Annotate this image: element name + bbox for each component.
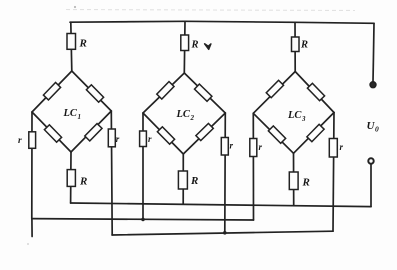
wire bridge 2 right r drop	[224, 113, 227, 233]
wire left stub below rail B	[31, 219, 33, 237]
resistor bridge 2 lower-right arm	[196, 123, 213, 140]
wire R top feed bridge 2	[183, 21, 186, 73]
arrow mark near R of bridge 2	[205, 44, 211, 50]
svg-text:1: 1	[78, 113, 82, 121]
wire bridge 1 arm top-right	[72, 71, 112, 111]
resistor bridge 2 upper-left arm	[157, 82, 174, 99]
resistor r right bridge 2	[221, 138, 228, 156]
terminal lower output	[368, 158, 373, 163]
resistor R bottom bridge 2	[178, 171, 187, 189]
resistor R top bridge 3	[292, 37, 300, 52]
resistor R bottom bridge 1	[67, 170, 75, 187]
terminal upper output	[370, 82, 376, 88]
svg-text:r: r	[259, 142, 263, 152]
speck bottom-left	[27, 243, 29, 245]
svg-text:LC: LC	[287, 110, 302, 121]
svg-text:LC: LC	[176, 109, 191, 120]
wire bottom rail A (bottom R bus)	[71, 203, 371, 207]
resistor bridge 1 upper-right arm	[86, 85, 103, 102]
svg-text:r: r	[116, 134, 120, 144]
wire bridge 3 left r drop	[252, 113, 254, 220]
resistor bridge 2 lower-left arm	[157, 127, 174, 144]
resistor r left bridge 3	[250, 139, 257, 157]
resistor r left bridge 1	[29, 132, 36, 149]
wire bridge 1 arm left-bottom	[32, 112, 71, 152]
svg-text:r: r	[18, 136, 22, 146]
wire bridge 3 right r drop	[333, 113, 334, 232]
wire right drop to upper output terminal	[373, 23, 374, 81]
svg-text:R: R	[79, 176, 87, 188]
resistor bridge 1 upper-left arm	[43, 82, 60, 99]
svg-text:R: R	[190, 175, 198, 187]
resistor bridge 3 upper-left arm	[266, 80, 283, 97]
wire bridge 2 arm top-right	[184, 73, 225, 113]
wire bridge 2 arm left-bottom	[143, 113, 183, 154]
wire R top feed bridge 1	[71, 22, 72, 71]
wire bridge 2 bottom R drop	[182, 154, 184, 204]
wire bridge 3 arm top-left	[253, 72, 295, 114]
svg-text:LC: LC	[63, 108, 78, 119]
svg-text:2: 2	[190, 114, 195, 122]
resistor bridge 3 upper-right arm	[307, 83, 324, 100]
wire R top feed bridge 3	[294, 22, 296, 71]
svg-text:r: r	[340, 142, 344, 152]
wire bridge 3 arm left-bottom	[253, 113, 293, 153]
wire bottom rail B (left r bus)	[32, 219, 254, 220]
faint show-through smudge at top	[66, 10, 355, 11]
svg-text:R: R	[191, 40, 199, 51]
svg-text:R: R	[300, 40, 308, 51]
resistor r right bridge 1	[108, 129, 115, 147]
wire bridge 1 bottom R drop	[70, 152, 72, 203]
resistor bridge 1 lower-right arm	[85, 124, 102, 141]
resistor r left bridge 2	[140, 131, 147, 147]
resistor R bottom bridge 3	[289, 172, 298, 190]
wire bridge 2 left r drop	[142, 113, 144, 219]
svg-text:R: R	[302, 177, 310, 189]
resistor r right bridge 3	[329, 139, 337, 158]
resistor R top bridge 2	[181, 35, 189, 51]
resistor bridge 2 upper-right arm	[194, 84, 211, 101]
wire bridge 1 right r drop	[110, 111, 113, 235]
resistor bridge 3 lower-left arm	[268, 126, 285, 143]
wire bridge 1 arm top-left	[32, 71, 72, 112]
wire lower output terminal to rail A	[370, 164, 372, 207]
wire bridge 2 arm right-bottom	[183, 113, 225, 154]
resistor R top bridge 1	[67, 34, 76, 50]
resistor bridge 1 lower-left arm	[44, 125, 61, 142]
wire bridge 3 arm top-right	[295, 72, 334, 113]
svg-text:0: 0	[375, 125, 379, 134]
wire bottom rail C (right r bus)	[112, 231, 333, 235]
speck near top	[74, 6, 76, 8]
resistor bridge 3 lower-right arm	[307, 124, 324, 141]
svg-text:3: 3	[301, 115, 306, 123]
wire bridge 1 arm right-bottom	[71, 111, 111, 152]
junction node rail B / r left bridge 2	[141, 218, 145, 222]
wire bridge 3 bottom R drop	[293, 153, 295, 205]
wire bridge 3 arm right-bottom	[294, 113, 335, 154]
wire bridge 1 left r drop	[31, 112, 33, 219]
wire top supply rail	[70, 21, 374, 23]
wire bridge 2 arm top-left	[143, 73, 184, 113]
svg-text:r: r	[230, 141, 234, 151]
svg-text:r: r	[148, 134, 152, 144]
junction node rail C / r right bridge 2	[223, 231, 227, 235]
svg-text:R: R	[79, 38, 87, 50]
